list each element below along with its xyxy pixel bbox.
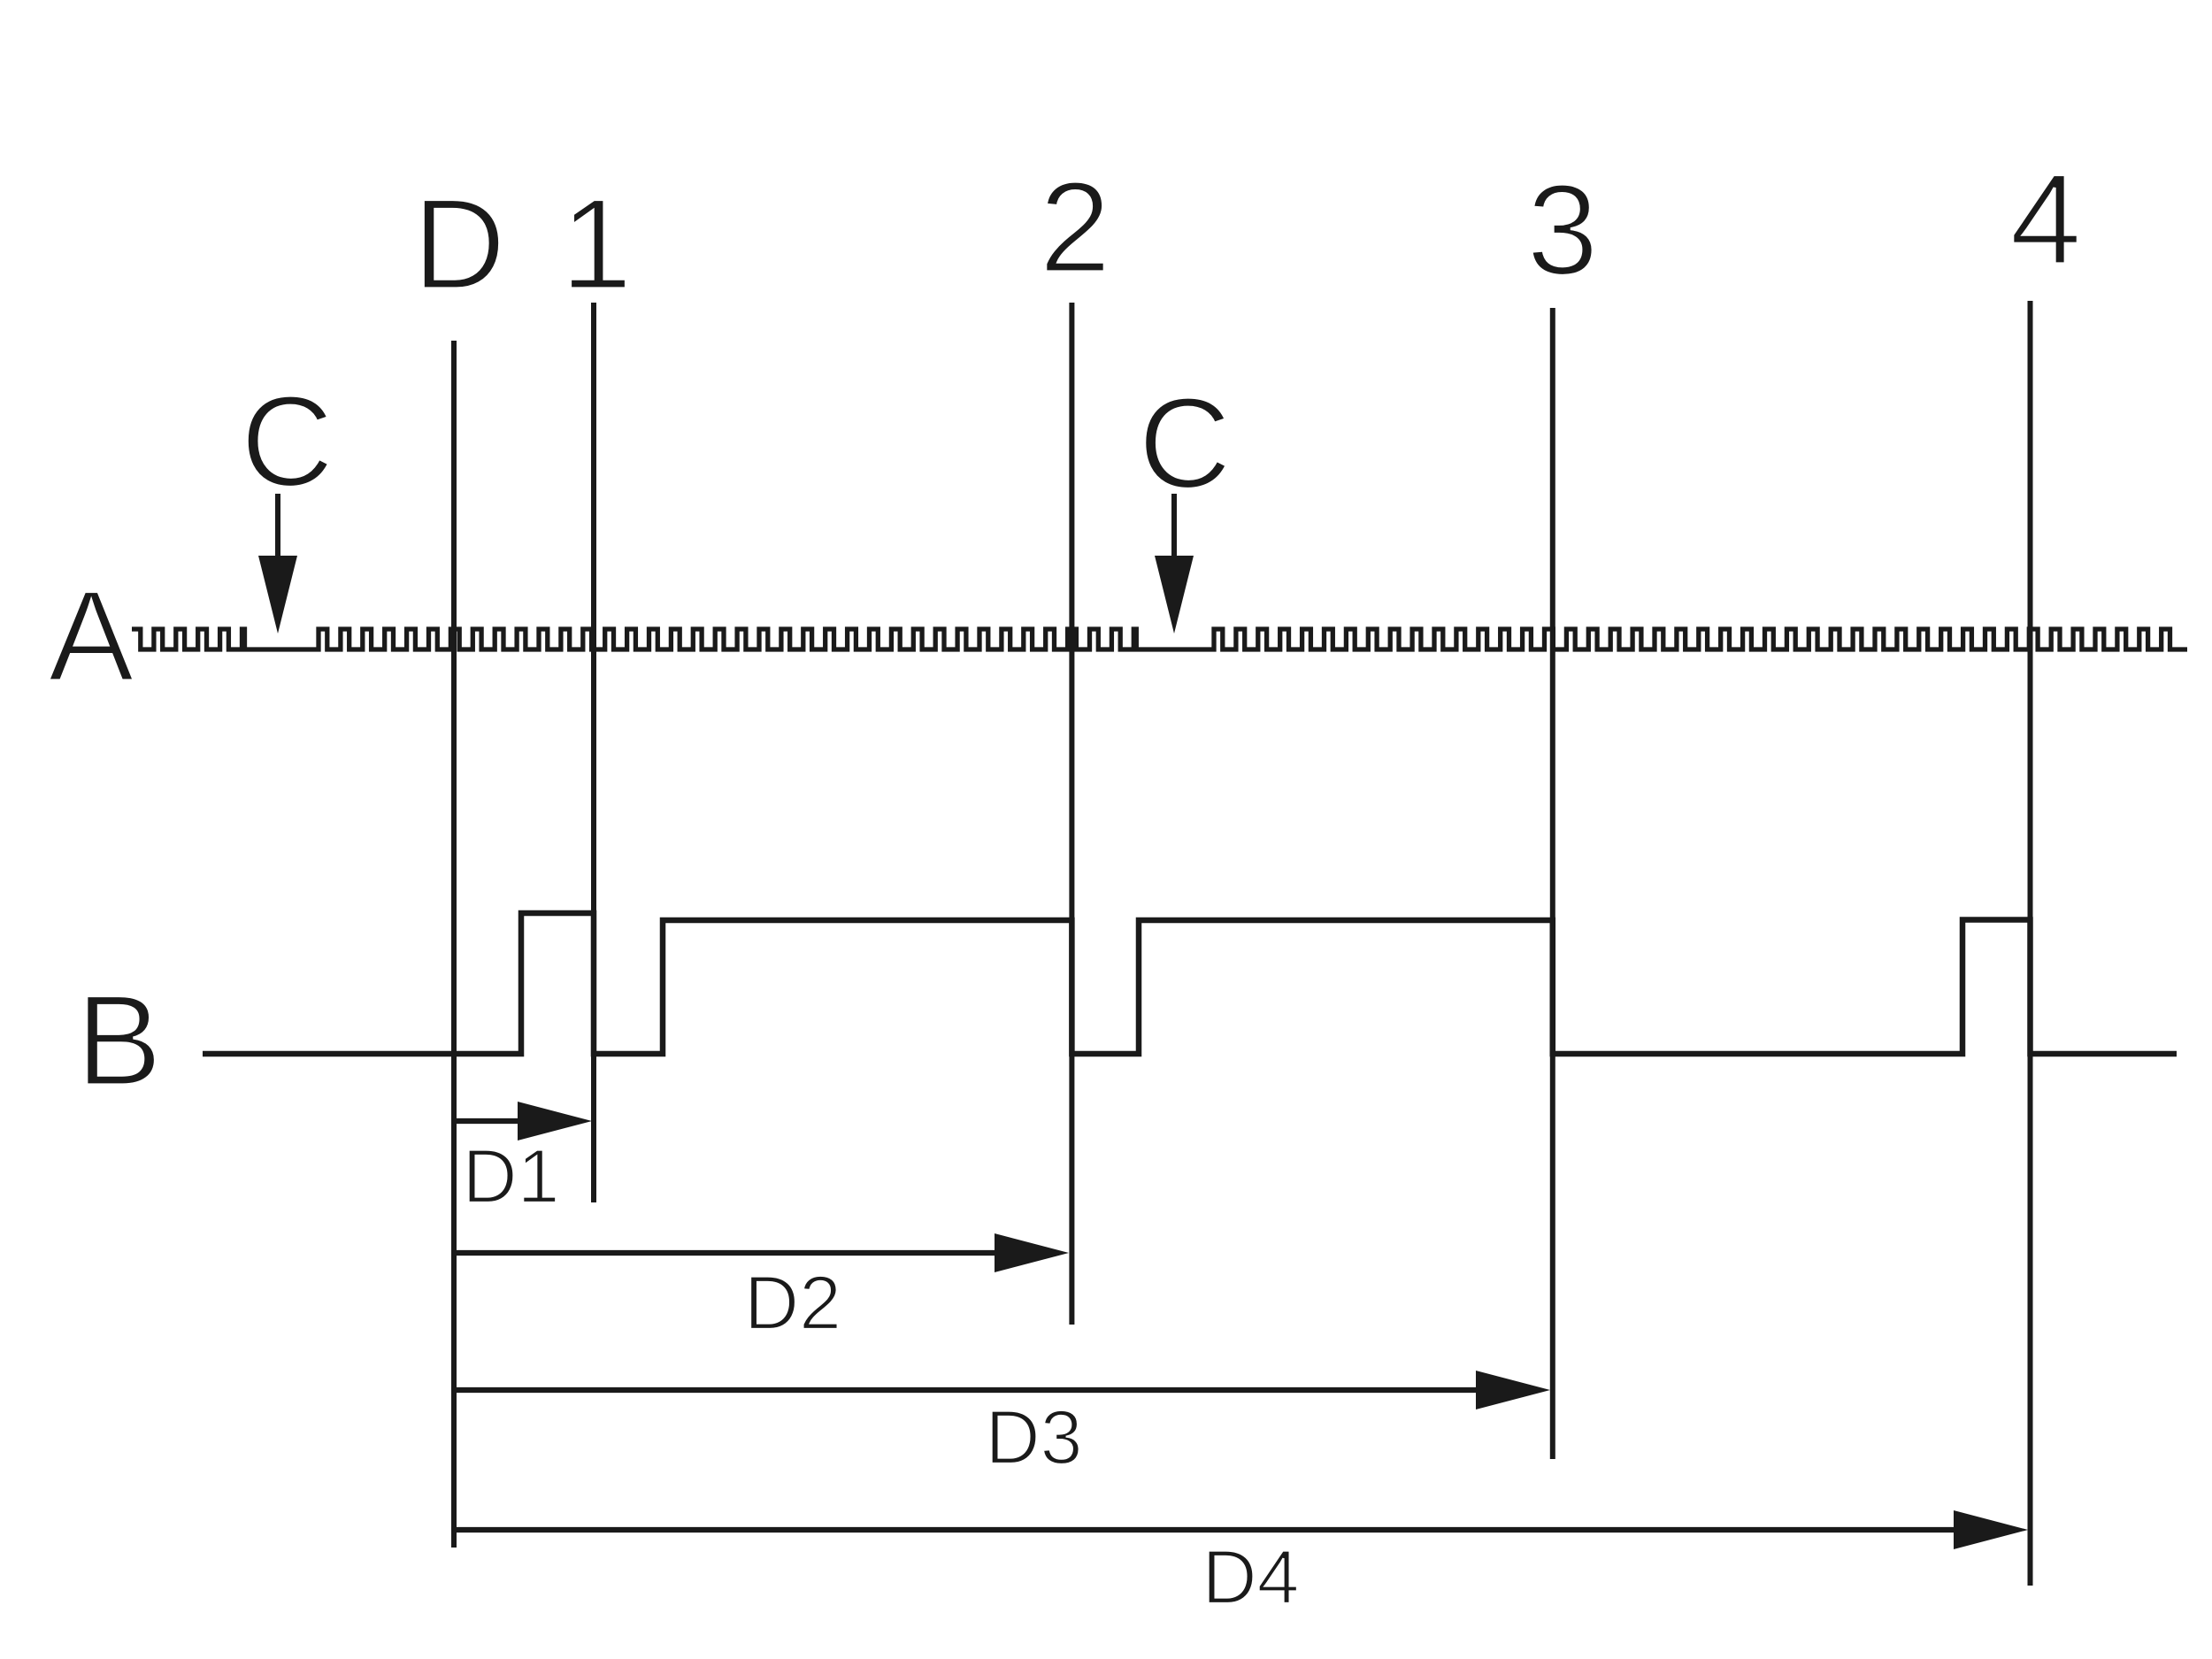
svg-text:2: 2 — [1039, 155, 1110, 299]
svg-text:B: B — [76, 968, 162, 1112]
svg-text:D: D — [412, 172, 505, 316]
svg-text:D4: D4 — [1202, 1535, 1300, 1620]
svg-text:3: 3 — [1526, 157, 1598, 302]
svg-text:D2: D2 — [744, 1261, 841, 1346]
svg-text:C: C — [1138, 371, 1231, 515]
svg-text:1: 1 — [560, 172, 632, 316]
svg-text:C: C — [241, 369, 334, 513]
svg-text:A: A — [48, 564, 134, 708]
svg-text:D3: D3 — [986, 1395, 1083, 1480]
svg-text:D1: D1 — [463, 1134, 560, 1219]
svg-text:4: 4 — [2009, 147, 2081, 291]
